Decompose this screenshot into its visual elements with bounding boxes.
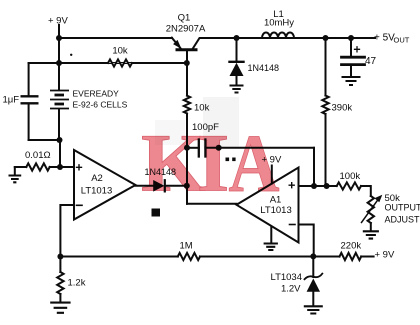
svg-text:+ 9V: + 9V bbox=[375, 250, 395, 261]
svg-text:ADJUST: ADJUST bbox=[385, 215, 420, 225]
svg-text:LT1013: LT1013 bbox=[81, 186, 113, 197]
svg-text:390k: 390k bbox=[332, 103, 353, 114]
svg-text:220k: 220k bbox=[341, 241, 362, 252]
svg-text:10k: 10k bbox=[194, 103, 210, 114]
svg-text:A2: A2 bbox=[91, 173, 103, 184]
svg-text:A: A bbox=[229, 117, 280, 210]
svg-text:Q1: Q1 bbox=[178, 13, 191, 24]
svg-text:1.2V: 1.2V bbox=[281, 284, 301, 295]
svg-text:OUT: OUT bbox=[394, 36, 410, 45]
svg-text:1N4148: 1N4148 bbox=[248, 63, 280, 73]
svg-text:EVEREADY: EVEREADY bbox=[73, 89, 120, 99]
svg-text:K: K bbox=[141, 117, 206, 209]
svg-text:+ 5V: + 5V bbox=[374, 33, 395, 44]
svg-text:OUTPUT: OUTPUT bbox=[385, 203, 420, 213]
svg-text:100k: 100k bbox=[340, 171, 361, 182]
svg-text:10k: 10k bbox=[112, 46, 128, 57]
svg-text:1μF: 1μF bbox=[3, 95, 20, 106]
svg-text:2N2907A: 2N2907A bbox=[166, 24, 206, 35]
svg-text:1.2k: 1.2k bbox=[68, 278, 86, 289]
svg-text:1M: 1M bbox=[180, 241, 193, 252]
svg-text:E-92-6 CELLS: E-92-6 CELLS bbox=[73, 100, 128, 110]
svg-text:0.01Ω: 0.01Ω bbox=[25, 150, 51, 161]
svg-text:I: I bbox=[197, 117, 229, 209]
svg-text:10mHy: 10mHy bbox=[264, 18, 294, 29]
svg-text:47: 47 bbox=[365, 56, 377, 67]
svg-text:LT1034: LT1034 bbox=[270, 272, 302, 283]
svg-text:+ 9V: + 9V bbox=[48, 16, 68, 27]
